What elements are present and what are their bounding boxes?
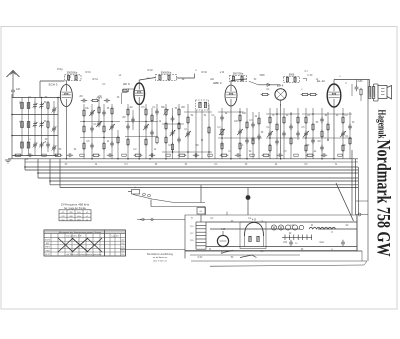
tube EBF2 V3 bbox=[225, 85, 237, 106]
wire input rail y97 bbox=[12, 97, 60, 99]
trimmer capacitor C8b bbox=[52, 127, 56, 129]
svg-text:über 5 000 cm: über 5 000 cm bbox=[153, 259, 167, 262]
svg-text:3k: 3k bbox=[269, 145, 272, 147]
capacitor C9 bbox=[82, 99, 84, 103]
svg-text:a1: a1 bbox=[314, 151, 317, 153]
svg-text:468: 468 bbox=[69, 216, 73, 218]
svg-text:220: 220 bbox=[121, 243, 124, 245]
wire EBF2 cathode down bbox=[230, 106, 232, 159]
resistor R44 bbox=[312, 124, 314, 130]
capacitor C19 bbox=[131, 118, 135, 120]
wave switch contact S1 bbox=[132, 190, 140, 195]
svg-text:o: o bbox=[339, 76, 341, 78]
bus wire 7 bbox=[60, 187, 358, 189]
svg-text:985: 985 bbox=[69, 220, 73, 222]
svg-text:5908: 5908 bbox=[289, 74, 295, 77]
resistor R15 bbox=[145, 139, 147, 145]
svg-text:W 31: W 31 bbox=[85, 72, 91, 74]
scale lamp 4 bbox=[292, 225, 297, 230]
svg-text:Osc: Osc bbox=[61, 220, 65, 222]
mains dropper ladder bbox=[196, 221, 206, 223]
voltage measurement table bbox=[44, 230, 126, 256]
antenna coupling capacitor C1 bbox=[11, 89, 15, 91]
wire column x35 bbox=[34, 98, 36, 156]
ratio detector box (dashed) bbox=[284, 77, 300, 83]
resistor R38 bbox=[276, 124, 278, 130]
capacitor C13 bbox=[90, 127, 94, 129]
resistor R20 bbox=[165, 137, 167, 143]
resistor R17 bbox=[156, 137, 158, 143]
mains switch S3 bbox=[223, 251, 233, 253]
svg-text:0,5: 0,5 bbox=[301, 127, 305, 129]
resistor R33 bbox=[262, 93, 268, 95]
svg-text:5k: 5k bbox=[204, 115, 207, 117]
electrolytic capacitor C60 bbox=[289, 241, 293, 243]
svg-text:1k: 1k bbox=[107, 141, 110, 143]
svg-text:5907/56a: 5907/56a bbox=[233, 73, 244, 76]
detector coil L10 bbox=[286, 77, 288, 82]
svg-text:25: 25 bbox=[261, 132, 264, 134]
svg-text:kHz: kHz bbox=[77, 216, 80, 218]
svg-text:5k: 5k bbox=[74, 149, 77, 151]
resistor R24 bbox=[187, 117, 189, 123]
svg-text:0,3: 0,3 bbox=[217, 127, 221, 129]
svg-text:50: 50 bbox=[59, 149, 62, 151]
svg-text:C-f: C-f bbox=[305, 71, 308, 73]
svg-text:Nordmark 758 GW: Nordmark 758 GW bbox=[373, 140, 394, 257]
oscillator coil L4 bbox=[67, 75, 69, 80]
svg-text:Bei Allstrom-Ausführung: Bei Allstrom-Ausführung bbox=[147, 253, 173, 256]
capacitor C12 bbox=[102, 111, 106, 113]
resistor R21 bbox=[171, 144, 173, 150]
capacitor C35 bbox=[289, 125, 293, 127]
resistor R26 bbox=[221, 129, 223, 135]
capacitor C17 bbox=[110, 142, 114, 144]
tuning capacitor C6 bbox=[40, 123, 44, 125]
svg-text:U10: U10 bbox=[283, 242, 288, 244]
svg-text:25: 25 bbox=[107, 108, 110, 110]
svg-text:alle Werte mit Röhrenvoltmeter: alle Werte mit Röhrenvoltmeter gemessen bbox=[66, 253, 101, 256]
svg-text:Zf-Frequenz 468 kHz: Zf-Frequenz 468 kHz bbox=[61, 203, 90, 207]
wire rail y135 bbox=[12, 135, 58, 137]
wire vertical x201 bbox=[200, 185, 202, 203]
resistor R7 bbox=[83, 126, 85, 132]
wire bottom link from tables bbox=[120, 249, 185, 251]
svg-text:5k: 5k bbox=[185, 164, 188, 166]
antenna coil L2 bbox=[21, 122, 24, 128]
bus wire 6 bbox=[50, 184, 358, 186]
wire IF-I input bbox=[138, 80, 140, 83]
coupling coil L2a bbox=[27, 122, 30, 128]
padder capacitor C3 bbox=[33, 123, 37, 125]
wire EBF2 top stub bbox=[230, 81, 232, 86]
svg-text:±2: ±2 bbox=[86, 216, 89, 218]
svg-text:EL12: EL12 bbox=[45, 254, 49, 256]
rectifier tube CY2 V6 bbox=[217, 235, 228, 246]
resistor R47 bbox=[342, 117, 344, 123]
resistor R27 bbox=[221, 143, 223, 149]
dial pointer diagonal bbox=[336, 183, 354, 221]
wire grid cap stub V2 bbox=[128, 88, 134, 90]
loudspeaker LS bbox=[378, 86, 387, 99]
resistor R41 bbox=[297, 117, 299, 123]
svg-text:0,1: 0,1 bbox=[102, 84, 106, 86]
oscillator coil L5 bbox=[75, 75, 77, 80]
svg-text:Zf1: Zf1 bbox=[62, 212, 66, 214]
capacitor C10 bbox=[105, 99, 107, 103]
svg-text:0,2: 0,2 bbox=[344, 115, 348, 117]
junction arrows at oscillator grid bbox=[97, 97, 99, 99]
svg-text:1M: 1M bbox=[317, 141, 320, 143]
svg-text:0,1: 0,1 bbox=[307, 115, 311, 117]
resistor R28 bbox=[239, 115, 241, 121]
svg-text:0,1: 0,1 bbox=[266, 127, 270, 129]
svg-text:30: 30 bbox=[44, 121, 47, 123]
bus wire 2 bbox=[25, 169, 358, 171]
power lower rail bbox=[191, 260, 367, 262]
padder capacitor C2 bbox=[33, 104, 37, 106]
power section outline bbox=[185, 215, 357, 251]
svg-text:b 30: b 30 bbox=[308, 74, 313, 77]
right bus vertical 3 bbox=[358, 167, 360, 215]
power bottom rails bbox=[185, 250, 362, 252]
resistor R39 bbox=[283, 117, 285, 123]
wire IF-I to riser bbox=[177, 77, 195, 79]
mains plug wires bbox=[240, 255, 257, 258]
svg-text:e5: e5 bbox=[44, 142, 47, 144]
capacitor C34 bbox=[282, 132, 286, 134]
wire right vertical column x58 bbox=[57, 98, 59, 156]
svg-text:0,5: 0,5 bbox=[342, 145, 346, 147]
wire vertical x248 bbox=[247, 188, 249, 216]
svg-text:0,5: 0,5 bbox=[283, 151, 287, 153]
scale lamp 1 bbox=[271, 225, 276, 230]
IF transformer III (in field) bbox=[199, 102, 201, 108]
wire speaker connections bbox=[374, 83, 379, 85]
svg-text:50: 50 bbox=[316, 122, 319, 124]
mains transformer dome bbox=[245, 223, 264, 237]
capacitor C14 bbox=[110, 125, 114, 127]
wire IF-II to detector diode bbox=[249, 81, 259, 85]
wire EM4 cathode down bbox=[280, 104, 282, 159]
tuning capacitor C5 bbox=[40, 104, 44, 106]
right bus vertical 2 bbox=[355, 159, 357, 215]
dial cord step wire bbox=[133, 195, 205, 203]
svg-text:Messwerte der Spannungen gegen: Messwerte der Spannungen gegen Chassis bbox=[59, 231, 102, 234]
capacitor C41 bbox=[341, 132, 345, 134]
svg-text:EBF 2: EBF 2 bbox=[213, 81, 222, 85]
svg-text:EM4: EM4 bbox=[46, 250, 50, 252]
svg-text:220: 220 bbox=[121, 254, 124, 256]
svg-text:A1P: A1P bbox=[16, 88, 21, 91]
svg-text:127: 127 bbox=[190, 233, 194, 235]
tube EF9 V2 bbox=[134, 83, 145, 104]
vertical connection wires of component field bbox=[83, 104, 85, 159]
padder capacitor C4 bbox=[33, 143, 37, 145]
svg-text:W 32: W 32 bbox=[147, 70, 153, 72]
svg-text:±2: ±2 bbox=[86, 212, 89, 214]
resistor R22 bbox=[178, 109, 180, 115]
antenna coil L1 bbox=[21, 103, 24, 109]
horizontal link wires in component field bbox=[80, 121, 120, 123]
resistor R9 bbox=[83, 143, 85, 149]
svg-text:1k: 1k bbox=[154, 149, 157, 151]
resistor R46 bbox=[327, 124, 329, 130]
svg-text:10k: 10k bbox=[85, 108, 90, 110]
svg-text:W 32: W 32 bbox=[201, 71, 207, 74]
svg-text:ECH3: ECH3 bbox=[45, 240, 50, 242]
resistor R10 bbox=[103, 143, 105, 149]
tone network capacitor C70 bbox=[355, 86, 359, 88]
svg-text:2M: 2M bbox=[79, 96, 82, 98]
svg-text:50: 50 bbox=[254, 79, 257, 81]
svg-text:Dr: Dr bbox=[311, 224, 314, 227]
resistor R25 bbox=[208, 127, 210, 133]
svg-text:100: 100 bbox=[242, 113, 247, 115]
svg-text:110: 110 bbox=[190, 226, 194, 228]
resistor R2 bbox=[47, 122, 49, 128]
wire drop x227 bbox=[226, 212, 228, 216]
svg-text:0,1: 0,1 bbox=[93, 124, 97, 126]
svg-text:0,1: 0,1 bbox=[184, 129, 188, 131]
capacitor C36 bbox=[296, 132, 300, 134]
svg-text:50: 50 bbox=[65, 164, 68, 166]
resistor R14 bbox=[145, 109, 147, 115]
capacitor C30 bbox=[245, 139, 249, 141]
capacitor C8 bbox=[46, 143, 50, 145]
resistor R48 bbox=[342, 145, 344, 151]
tone network wires bbox=[356, 80, 358, 85]
power sub-box bbox=[240, 222, 266, 249]
electrolytic capacitor C61 bbox=[341, 241, 345, 243]
IF coil L9 bbox=[241, 76, 243, 81]
resistor R11 bbox=[117, 137, 119, 143]
svg-text:0,3: 0,3 bbox=[124, 164, 128, 166]
svg-text:100: 100 bbox=[234, 121, 239, 123]
capacitor C31 bbox=[257, 135, 261, 137]
svg-text:St: St bbox=[209, 248, 212, 251]
wire EL12 anode to output transformer bbox=[334, 79, 370, 81]
svg-text:50: 50 bbox=[307, 145, 310, 147]
svg-text:30: 30 bbox=[45, 139, 48, 141]
bus wire 3 bbox=[38, 172, 358, 174]
svg-text:e: e bbox=[301, 89, 303, 91]
right side stub wires bbox=[356, 200, 368, 202]
capacitor C16 bbox=[90, 144, 94, 146]
svg-text:0,1: 0,1 bbox=[152, 107, 156, 109]
svg-text:0,1: 0,1 bbox=[228, 151, 232, 153]
resistor R31 bbox=[252, 138, 254, 144]
resistor R16 bbox=[151, 115, 153, 121]
svg-text:0,5: 0,5 bbox=[141, 107, 145, 109]
svg-text:5M: 5M bbox=[195, 145, 198, 147]
svg-text:5908: 5908 bbox=[259, 75, 265, 77]
tube ECH3 V1 bbox=[60, 85, 72, 107]
svg-text:30: 30 bbox=[117, 97, 120, 99]
resistor R36 bbox=[269, 117, 271, 123]
scale lamp 2 bbox=[278, 225, 283, 230]
IF transformer box II (dashed) bbox=[230, 76, 247, 82]
resistor R32 bbox=[258, 118, 260, 124]
capacitor C33 bbox=[275, 140, 279, 142]
capacitor C11 bbox=[90, 111, 94, 113]
wire top rail left section bbox=[40, 80, 65, 82]
svg-text:k: k bbox=[195, 70, 197, 72]
svg-text:2k: 2k bbox=[225, 113, 228, 115]
svg-text:Ua Ug Uk Ia S Ri: Ua Ug Uk Ia S Ri bbox=[66, 235, 82, 237]
chassis rail y158.8 bbox=[8, 158, 358, 160]
svg-text:±5: ±5 bbox=[86, 220, 89, 222]
resistor R13 bbox=[127, 139, 129, 145]
resistor R6 bbox=[111, 108, 113, 114]
svg-text:e2: e2 bbox=[119, 75, 122, 77]
capacitor C22 bbox=[155, 110, 159, 112]
capacitor C37 bbox=[304, 132, 308, 134]
svg-text:2k: 2k bbox=[255, 116, 258, 118]
svg-text:A-Zf: A-Zf bbox=[221, 228, 226, 231]
svg-text:0,1: 0,1 bbox=[211, 115, 215, 117]
IF coil L7 bbox=[168, 75, 170, 80]
svg-text:kHz: kHz bbox=[77, 212, 80, 214]
tone network resistor R70 bbox=[360, 89, 362, 95]
svg-text:0,5: 0,5 bbox=[86, 141, 90, 143]
trimmer capacitor C8a bbox=[52, 108, 56, 110]
svg-text:50: 50 bbox=[231, 257, 234, 259]
bus wire 1 bbox=[25, 166, 358, 168]
svg-text:6,3V: 6,3V bbox=[198, 257, 203, 259]
svg-text:Prüfg.: Prüfg. bbox=[57, 68, 63, 71]
bus wire 4 bbox=[38, 177, 358, 179]
svg-text:Tr: Tr bbox=[191, 217, 193, 220]
svg-text:0,5: 0,5 bbox=[304, 164, 308, 166]
svg-text:2k: 2k bbox=[275, 164, 278, 166]
svg-text:0,3: 0,3 bbox=[249, 120, 253, 122]
svg-text:Zf2: Zf2 bbox=[62, 216, 66, 218]
power wiring horizontal 3 bbox=[206, 246, 357, 248]
svg-text:5905/56a: 5905/56a bbox=[67, 72, 78, 75]
IF coil L8 bbox=[232, 76, 234, 81]
resistor R37 bbox=[269, 145, 271, 151]
wire left vertical bus bbox=[11, 94, 13, 159]
wire rail y155 bbox=[12, 155, 58, 157]
svg-text:Hagenuk: Hagenuk bbox=[376, 110, 387, 139]
resistor R19 bbox=[165, 123, 167, 129]
fuse link wire bbox=[137, 219, 185, 221]
resistor R5 bbox=[98, 107, 100, 113]
svg-text:0,1: 0,1 bbox=[266, 89, 270, 91]
svg-text:4a: 4a bbox=[182, 79, 185, 81]
svg-text:220: 220 bbox=[121, 247, 124, 249]
svg-text:Lage der: Lage der bbox=[111, 234, 119, 237]
wire tube V1 top stub bbox=[65, 81, 67, 85]
wire detector box stub bbox=[303, 77, 307, 79]
capacitor C40 bbox=[320, 146, 324, 148]
capacitor C38 bbox=[311, 139, 315, 141]
power inner rail bbox=[190, 254, 300, 256]
wire junction dots bbox=[24, 166, 26, 168]
resistor R29 bbox=[239, 143, 241, 149]
svg-text:6: 6 bbox=[345, 83, 347, 85]
svg-text:4-Zf: 4-Zf bbox=[252, 220, 256, 222]
svg-text:0,1: 0,1 bbox=[210, 218, 214, 220]
resistor R40 bbox=[290, 138, 292, 144]
svg-text:30: 30 bbox=[286, 115, 289, 117]
svg-text:1M: 1M bbox=[129, 107, 132, 109]
svg-text:20: 20 bbox=[221, 145, 224, 147]
svg-text:ECH 3: ECH 3 bbox=[49, 83, 58, 87]
capacitor C29 bbox=[251, 123, 255, 125]
bus wire 5 bbox=[50, 180, 358, 182]
svg-text:Si: Si bbox=[335, 164, 338, 166]
wire column x54 bbox=[53, 101, 55, 156]
svg-text:30: 30 bbox=[289, 233, 292, 235]
capacitor C21 bbox=[150, 131, 154, 133]
tuning capacitor C7 bbox=[40, 143, 44, 145]
svg-text:50: 50 bbox=[175, 108, 178, 110]
svg-text:bei | Lage der Punkte: bei | Lage der Punkte bbox=[64, 207, 87, 210]
power wiring horizontal 1 bbox=[206, 221, 357, 223]
svg-text:5k: 5k bbox=[191, 115, 194, 117]
svg-text:S2: S2 bbox=[346, 225, 350, 227]
resistor R1 bbox=[47, 103, 49, 109]
svg-text:8: 8 bbox=[331, 232, 333, 234]
svg-text:220: 220 bbox=[190, 240, 194, 242]
svg-text:EF 9: EF 9 bbox=[123, 82, 130, 86]
trimmer capacitor C15 bbox=[97, 122, 101, 124]
pilot lamp junction dot bbox=[246, 195, 251, 200]
svg-text:0,2: 0,2 bbox=[133, 149, 137, 151]
wire rail y114 bbox=[12, 114, 58, 116]
scale lamp 3 bbox=[285, 225, 290, 230]
wire antenna to input rail bbox=[12, 94, 14, 98]
wire column x28 bbox=[28, 98, 30, 156]
bus left verticals bbox=[24, 159, 26, 170]
second rail y162 bbox=[25, 161, 358, 163]
svg-text:468: 468 bbox=[69, 212, 73, 214]
IF coil L6 bbox=[159, 75, 161, 80]
svg-text:50k: 50k bbox=[161, 107, 166, 109]
resistor R45 bbox=[321, 131, 323, 137]
svg-text:EBF2: EBF2 bbox=[45, 247, 50, 249]
scale lamp 5 bbox=[299, 225, 303, 229]
svg-text:0,1: 0,1 bbox=[214, 164, 218, 166]
svg-text:kHz: kHz bbox=[77, 220, 80, 222]
svg-text:a 30: a 30 bbox=[220, 72, 225, 74]
capacitor C39 bbox=[320, 118, 324, 120]
antenna coil L3 bbox=[21, 142, 24, 148]
antenna bbox=[7, 71, 20, 78]
svg-text:1k: 1k bbox=[95, 164, 98, 166]
wire column x48 bbox=[47, 101, 49, 152]
wire EF9 cathode down bbox=[138, 104, 140, 158]
capacitor C18 bbox=[126, 125, 130, 127]
capacitor C28 bbox=[238, 130, 242, 132]
switch contacts S2 bbox=[143, 193, 146, 196]
capacitor C32 bbox=[268, 132, 272, 134]
svg-text:2M: 2M bbox=[122, 117, 125, 119]
svg-text:Netz: Netz bbox=[320, 241, 326, 244]
capacitor C26 bbox=[186, 132, 190, 134]
svg-text:an die Antenne: an die Antenne bbox=[153, 256, 168, 259]
decoupling component row along chassis rail bbox=[15, 154, 21, 156]
svg-text:Gl.: Gl. bbox=[200, 211, 203, 213]
coupling coil L1a bbox=[27, 103, 30, 109]
resistor R42 bbox=[305, 117, 307, 123]
svg-text:0,5: 0,5 bbox=[98, 96, 102, 98]
svg-text:30: 30 bbox=[44, 102, 47, 104]
potentiometer adjustment arrows bbox=[89, 110, 95, 116]
ground mark left block bbox=[5, 159, 11, 161]
